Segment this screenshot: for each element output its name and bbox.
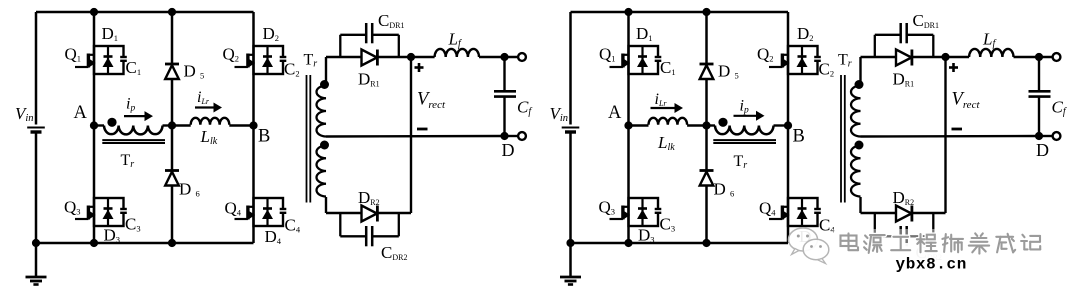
svg-text:D: D	[1036, 140, 1049, 160]
svg-text:B: B	[793, 127, 805, 147]
svg-text:ybx8.cn: ybx8.cn	[896, 256, 967, 274]
svg-text:D: D	[502, 140, 515, 160]
svg-text:B: B	[258, 127, 270, 147]
svg-text:A: A	[608, 103, 622, 123]
svg-text:A: A	[74, 103, 88, 123]
